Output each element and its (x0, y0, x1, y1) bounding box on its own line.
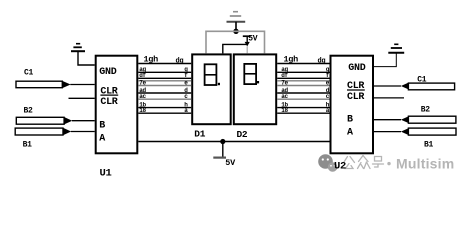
svg-text:df: df (281, 72, 288, 79)
svg-text:U2: U2 (334, 160, 346, 172)
IC U1 (96, 56, 138, 154)
connector B2 (right) (374, 106, 456, 124)
svg-text:CLR: CLR (100, 87, 117, 98)
wire U1-D1 row 3 (138, 72, 191, 79)
wire U1-D1 row 9 (138, 107, 191, 114)
ground GND2 (top middle, gray) (227, 12, 246, 32)
svg-text:A: A (99, 134, 105, 145)
connector C1 (left) (16, 69, 95, 89)
wire D2-U2 row 2 (277, 66, 330, 73)
connector C1 (right) (374, 76, 455, 90)
wire D2-U2 row 1 (277, 63, 329, 65)
svg-text:B1: B1 (23, 141, 33, 150)
众 (359, 156, 364, 162)
svg-text:B1: B1 (424, 140, 434, 149)
svg-text:df: df (139, 72, 146, 79)
watermark icon (318, 154, 337, 172)
connector B1 (right) (374, 128, 456, 149)
wire U1-D1 row 7 (138, 93, 191, 100)
svg-text:D1: D1 (194, 129, 205, 140)
svg-text:U1: U1 (100, 167, 112, 179)
svg-text:CLR: CLR (347, 92, 364, 103)
svg-text:D2: D2 (237, 129, 248, 140)
svg-text:CLR: CLR (100, 97, 117, 108)
wire D2-U2 row 9 (277, 107, 330, 114)
wire D2-U2 row 3 (277, 72, 330, 79)
svg-text:B2: B2 (421, 106, 431, 115)
svg-text:A: A (347, 127, 353, 138)
svg-text:18: 18 (139, 107, 146, 114)
svg-text:Multisim: Multisim (396, 156, 454, 172)
connector B2 (left) (16, 107, 94, 125)
svg-text:C1: C1 (24, 69, 34, 78)
svg-text:B: B (99, 121, 105, 132)
display D2 (234, 54, 276, 124)
svg-text:5V: 5V (225, 158, 236, 168)
wire D2-U2 row 5 (277, 79, 330, 86)
wire U1-D1 row 4 (138, 80, 191, 82)
wire U1-D1 row 2 (138, 66, 191, 73)
connector B1 (left) (15, 128, 95, 150)
svg-text:dg: dg (318, 57, 326, 65)
junction (220, 139, 225, 144)
svg-text:ac: ac (281, 93, 288, 100)
svg-text:B: B (347, 114, 353, 125)
ground GND3 (right, black) (374, 44, 404, 66)
svg-text:7e: 7e (139, 79, 146, 86)
svg-text:GND: GND (99, 67, 116, 78)
display D1 (192, 54, 231, 124)
wire 5V to D1 (223, 44, 247, 53)
svg-text:GND: GND (348, 63, 365, 74)
号 (375, 157, 382, 162)
watermark text (drawn CJK strokes) (344, 156, 384, 169)
ground GND1 (left, black) (71, 44, 95, 65)
svg-text:5V: 5V (248, 35, 258, 44)
wire 5V to D2 (gray) (246, 46, 248, 53)
wire D2-U2 row 4 (277, 80, 329, 82)
IC U2 (331, 56, 374, 154)
wire 5V rail bottom (U1 to U2) (138, 141, 329, 143)
wire U1-D1 row 6 (138, 87, 191, 94)
wire D2-U2 row 7 (277, 93, 330, 100)
svg-text:7e: 7e (281, 79, 288, 86)
watermark dot (387, 162, 390, 165)
公 (344, 157, 348, 163)
svg-text:18: 18 (281, 107, 288, 114)
power VCC1 5V (top) (243, 35, 258, 47)
wire CLR2 stub (left) (69, 97, 95, 99)
wire CLR2 stub (right) (374, 97, 404, 99)
wire U1-D1 row 5 (138, 79, 191, 86)
wire U1-D1 row 8 (138, 101, 191, 108)
svg-text:B2: B2 (24, 107, 34, 116)
svg-text:dg: dg (176, 57, 184, 65)
wire U1-D1 row 1 (138, 63, 191, 65)
power VCC2 5V (bottom) (213, 142, 236, 168)
svg-text:ac: ac (139, 93, 146, 100)
junction (233, 29, 238, 34)
wire D2-U2 row 6 (277, 87, 330, 94)
wire D2-U2 row 8 (277, 101, 330, 108)
wire gray ground rail (top) (206, 31, 265, 53)
